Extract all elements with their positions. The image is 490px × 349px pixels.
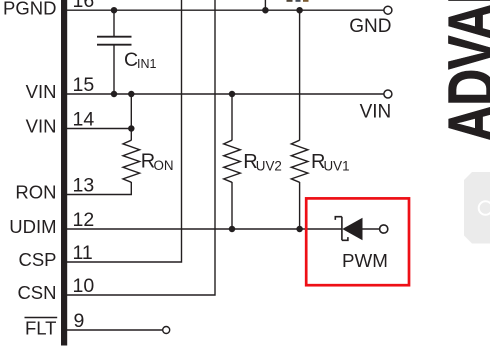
- svg-text:VIN: VIN: [360, 102, 392, 123]
- svg-text:ADVAN: ADVAN: [434, 0, 490, 142]
- svg-text:GND: GND: [349, 16, 391, 37]
- wire PWM diode to terminal: [363, 228, 380, 230]
- svg-text:11: 11: [73, 242, 93, 264]
- IC boundary bar: [61, 0, 67, 346]
- capacitor C_IN1 plates: [97, 36, 132, 38]
- wire node stub top: [264, 0, 266, 10]
- wire R_UV2 top lead: [231, 94, 233, 140]
- svg-text:FLT: FLT: [25, 318, 57, 339]
- svg-text:VIN: VIN: [26, 116, 57, 137]
- junction dot pin14/R_ON: [128, 125, 135, 132]
- resistor R_UV2: [224, 140, 241, 182]
- svg-text:CSN: CSN: [17, 282, 56, 303]
- wire pin15 VIN to VIN terminal: [67, 93, 384, 95]
- tab icon ring: [479, 201, 490, 215]
- wire R_UV1 bottom lead: [299, 182, 301, 229]
- wire C_IN1 top lead: [113, 10, 115, 36]
- svg-text:C: C: [124, 49, 138, 71]
- svg-text:CSP: CSP: [18, 249, 56, 270]
- wire R_UV2 bottom lead: [231, 182, 233, 229]
- junction dot R_UV1/UDIM: [296, 226, 303, 233]
- svg-text:15: 15: [73, 74, 95, 96]
- svg-text:UV2: UV2: [256, 158, 282, 173]
- wire R_ON top lead: [130, 94, 132, 140]
- wire C_IN1 bottom lead: [113, 45, 115, 94]
- junction dot R_UV1/GND: [296, 7, 303, 14]
- svg-text:10: 10: [73, 275, 95, 297]
- svg-text:PGND: PGND: [3, 0, 56, 19]
- terminal VIN: [384, 90, 392, 98]
- wire pin13 RON: [67, 182, 131, 195]
- grey side tab: [464, 172, 490, 244]
- junction dot node top: [262, 7, 269, 14]
- svg-text:VIN: VIN: [26, 81, 57, 102]
- junction dot R_UV2/VIN: [229, 91, 236, 98]
- wire pin9 FLT: [67, 329, 163, 331]
- wire pin14 VIN: [67, 128, 131, 130]
- svg-text:9: 9: [74, 310, 85, 332]
- resistor R_UV1: [291, 140, 308, 182]
- junction dot C_IN1/GND: [111, 7, 118, 14]
- red annotation box: [306, 198, 409, 285]
- wire pin11 CSP: [67, 0, 182, 262]
- wire R_UV1 top lead: [299, 10, 301, 140]
- wire pin16 PGND to GND: [67, 9, 384, 11]
- junction dot R_UV2/UDIM: [229, 226, 236, 233]
- svg-text:IN1: IN1: [137, 57, 157, 71]
- svg-text:ON: ON: [154, 158, 174, 173]
- partial text sliver top: [287, 0, 293, 2]
- diode D1 triangle: [342, 218, 362, 241]
- wire pin10 CSN: [67, 0, 215, 295]
- terminal PWM: [380, 225, 388, 233]
- svg-text:RON: RON: [15, 182, 56, 203]
- svg-text:16: 16: [73, 0, 95, 12]
- junction dot C_IN1/VIN: [111, 91, 118, 98]
- resistor R_ON: [123, 140, 140, 182]
- diode D1 zener cathode bar: [335, 217, 348, 241]
- svg-text:13: 13: [73, 174, 95, 196]
- FLT overline: [25, 317, 58, 319]
- svg-text:PWM: PWM: [342, 250, 388, 271]
- wire pin12 UDIM to PWM diode: [67, 228, 342, 230]
- terminal FLT: [163, 327, 170, 334]
- terminal GND: [384, 6, 392, 14]
- svg-text:14: 14: [73, 108, 95, 130]
- svg-text:12: 12: [73, 209, 95, 231]
- junction dot R_ON/VIN: [128, 91, 135, 98]
- svg-text:UV1: UV1: [324, 158, 350, 173]
- svg-text:UDIM: UDIM: [9, 216, 56, 237]
